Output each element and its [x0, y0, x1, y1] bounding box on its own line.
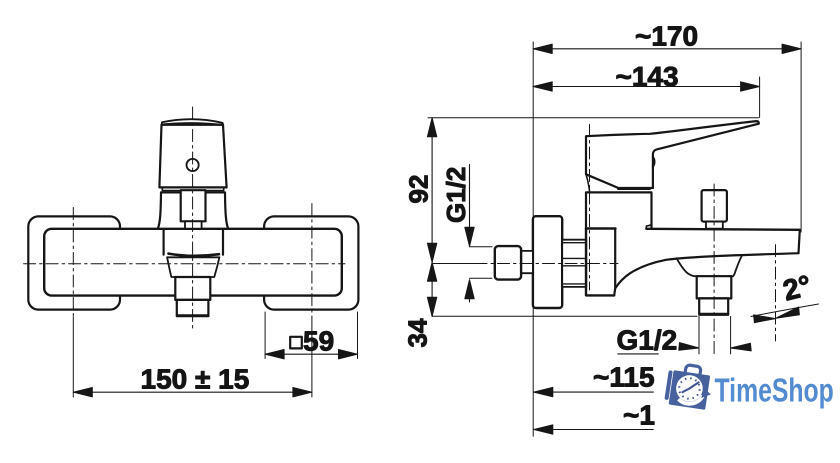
square symbol of sq59	[290, 337, 302, 349]
logo bag body	[669, 370, 711, 410]
housing step	[646, 225, 651, 229]
knob cap	[162, 119, 223, 125]
lever thumb bulge	[653, 157, 655, 167]
logo clock face	[674, 373, 704, 403]
knob circle	[187, 159, 199, 171]
extension line bottom level	[432, 315, 697, 317]
knob lower band	[162, 187, 223, 190]
lever left lower arc	[586, 174, 590, 191]
svg-text:59: 59	[303, 325, 334, 356]
body slab	[586, 229, 614, 296]
logo clock ticks	[677, 376, 703, 402]
cartridge inner block	[181, 190, 206, 221]
dim G1/2 left	[469, 165, 471, 302]
outlet flares	[677, 256, 743, 277]
dim sq59 line	[265, 353, 357, 355]
dim ~1	[534, 429, 654, 431]
dim 150 line	[73, 391, 312, 393]
svg-text:G1/2: G1/2	[441, 167, 471, 223]
extension line lever tip	[759, 77, 761, 117]
wall flange left	[28, 216, 120, 309]
extension line wall face	[532, 42, 534, 436]
logo side stripe	[664, 370, 672, 400]
svg-text:TimeShop: TimeShop	[715, 372, 834, 410]
dim 92 line	[431, 118, 433, 316]
spout stem	[175, 277, 210, 300]
nipple neck	[521, 251, 533, 273]
cartridge housing	[586, 192, 652, 228]
svg-text:34: 34	[403, 318, 433, 347]
mixer body (front)	[44, 229, 342, 296]
logo bag handle	[685, 365, 701, 378]
svg-text:150 ± 15: 150 ± 15	[141, 364, 250, 395]
centerline outlet vertical	[713, 184, 715, 354]
knob body	[159, 125, 226, 188]
wall connector	[562, 240, 586, 287]
shower outlet stem	[706, 222, 723, 229]
cartridge collar	[158, 192, 228, 228]
svg-text:~170: ~170	[635, 20, 698, 51]
svg-text:~115: ~115	[593, 361, 655, 392]
svg-text:~143: ~143	[616, 61, 679, 92]
wall flange right	[264, 216, 358, 309]
arm top edge	[586, 229, 800, 230]
outlet nut	[697, 276, 732, 298]
spout cone	[167, 257, 219, 277]
logo clock hands	[682, 380, 698, 394]
extension line lever top	[428, 117, 759, 119]
aerator	[177, 300, 209, 316]
dim 2 deg	[751, 304, 819, 317]
svg-text:2°: 2°	[780, 270, 815, 308]
spout sweep + underside	[615, 253, 798, 288]
lever handle	[586, 121, 759, 188]
shower outlet block	[702, 190, 727, 222]
valve housing edges	[164, 230, 223, 255]
logo swoosh	[678, 392, 703, 405]
logo swoosh arrowhead	[701, 388, 711, 400]
lever cap bottom thick	[618, 187, 649, 190]
centerline left flange	[72, 208, 74, 318]
dim sq59 extension lines	[265, 312, 357, 359]
centerline lever/body vertical	[589, 125, 591, 291]
extension line arm end	[800, 42, 802, 232]
dim ~170	[533, 48, 801, 50]
housing shadow arc	[169, 254, 220, 256]
escutcheon	[533, 216, 562, 308]
dim G1/2 bottom	[699, 317, 731, 354]
inlet axis horizontal	[432, 263, 475, 265]
arm right end	[799, 230, 800, 253]
centerline middle column	[192, 107, 194, 330]
svg-text:92: 92	[404, 175, 434, 204]
svg-text:~1: ~1	[623, 399, 655, 430]
dim ~115	[534, 391, 654, 393]
horizontal centerline	[24, 263, 345, 265]
centerline right flange	[311, 204, 313, 317]
svg-text:G1/2: G1/2	[617, 324, 678, 355]
cartridge stem	[185, 221, 202, 228]
2 deg reference line	[775, 245, 777, 341]
inlet nipple	[495, 246, 521, 280]
outlet aerator	[699, 298, 728, 314]
dim ~143	[533, 86, 759, 88]
